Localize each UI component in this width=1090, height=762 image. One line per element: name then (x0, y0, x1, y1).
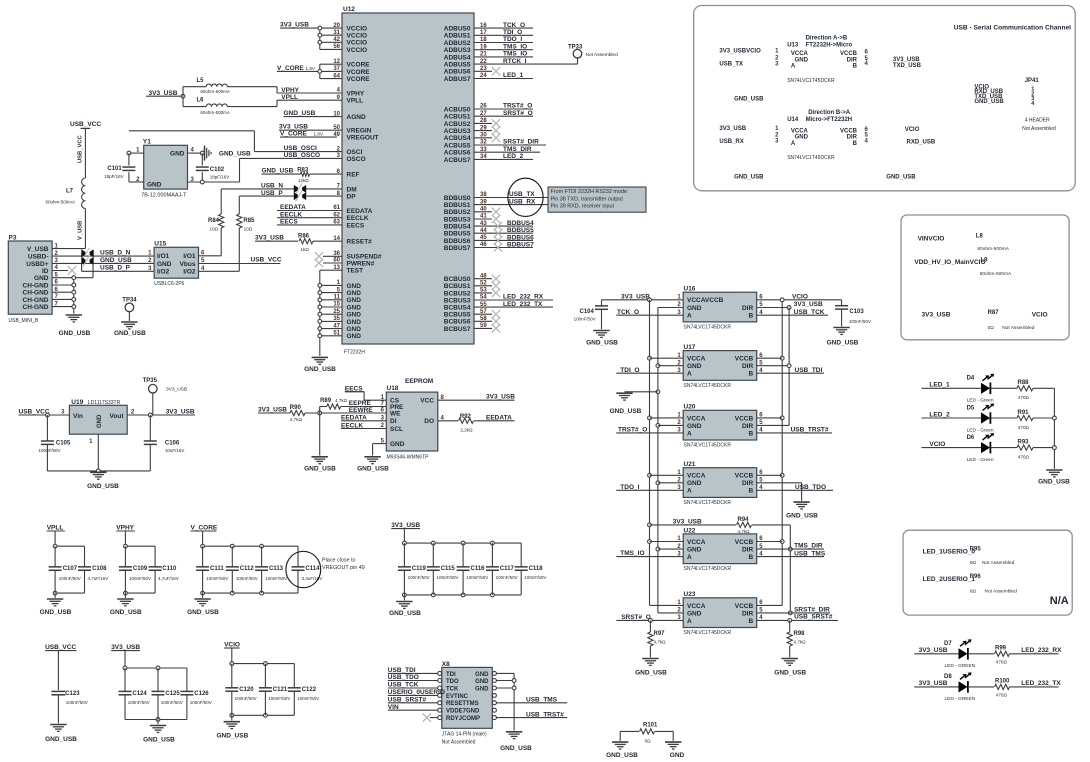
resistor R99 470R (995, 646, 1063, 665)
svg-text:VCIO: VCIO (1032, 311, 1048, 318)
svg-text:GND: GND (670, 752, 685, 759)
svg-text:R84: R84 (208, 218, 220, 224)
svg-text:C107: C107 (63, 566, 78, 572)
svg-text:VCCB: VCCB (735, 356, 754, 363)
svg-text:REF: REF (347, 172, 360, 179)
wire VPLL (277, 94, 342, 101)
svg-text:GND: GND (347, 290, 362, 297)
svg-text:GND: GND (795, 135, 809, 141)
svg-text:B: B (748, 488, 753, 495)
capacitor C112 (226, 546, 258, 593)
svg-text:1kΩ: 1kΩ (301, 247, 310, 252)
svg-text:U15: U15 (154, 241, 166, 248)
svg-text:GND: GND (475, 686, 489, 692)
svg-text:GND: GND (687, 423, 702, 430)
svg-text:100nF/50V: 100nF/50V (66, 700, 88, 705)
svg-text:DIR: DIR (742, 480, 754, 487)
svg-text:100nF/50V: 100nF/50V (206, 576, 228, 581)
svg-text:VCIO: VCIO (929, 441, 945, 448)
svg-text:V_CORE: V_CORE (191, 524, 218, 531)
svg-text:60ohm-500mA: 60ohm-500mA (977, 246, 1009, 252)
box LED USERIO not assembled (903, 530, 1072, 615)
LED D4 green (922, 374, 1018, 404)
svg-text:A: A (791, 64, 796, 70)
net USB_TCK from U16 B (757, 309, 828, 316)
svg-text:ACBUS6: ACBUS6 (444, 150, 471, 157)
U12 left pin names and numbers (333, 23, 382, 340)
svg-text:C105: C105 (56, 441, 71, 447)
svg-text:C122: C122 (302, 687, 317, 693)
svg-text:R100: R100 (995, 679, 1010, 685)
svg-text:LED_1: LED_1 (929, 382, 950, 389)
net EECS stub (277, 219, 342, 226)
svg-text:VCCB: VCCB (840, 51, 858, 57)
svg-text:GND_USB: GND_USB (827, 339, 859, 346)
svg-text:100nF/50V: 100nF/50V (466, 575, 488, 580)
svg-text:C106: C106 (165, 441, 180, 447)
svg-text:C115: C115 (441, 566, 456, 572)
svg-text:USB_VCC: USB_VCC (78, 134, 84, 163)
test point TP35 (143, 378, 187, 415)
wire Y1 pin4 to ground flag (188, 151, 205, 155)
ground GND_USB under U12 (304, 357, 336, 373)
svg-text:I/O2: I/O2 (157, 269, 170, 276)
ground GND_USB under R98 (774, 659, 806, 677)
net TMS_DIR from ACBUS6 (474, 146, 540, 153)
svg-text:From FTDI 2232H RS232 mode:: From FTDI 2232H RS232 mode: (551, 189, 629, 195)
svg-text:GND: GND (157, 261, 172, 268)
svg-text:4 HEADER: 4 HEADER (1025, 117, 1050, 123)
svg-text:GND: GND (687, 363, 702, 370)
no-connect X RDYJCOMP (423, 713, 438, 721)
net EEWRE to WE (349, 407, 374, 414)
resistor R85 10R (199, 196, 256, 271)
svg-text:I/O1: I/O1 (157, 253, 170, 260)
svg-text:DIR: DIR (742, 363, 754, 370)
no-connect X BCBUS (474, 275, 500, 283)
svg-text:R88: R88 (1018, 380, 1030, 386)
net USB_TRST# from X8 (496, 711, 567, 718)
bus 3V3_USB left vertical (648, 300, 684, 606)
buffer U23 SN74LVC1T45DCKR (677, 591, 763, 636)
svg-text:VCCA: VCCA (687, 603, 706, 610)
svg-text:VREGOUT: VREGOUT (347, 135, 379, 142)
svg-text:L5: L5 (197, 78, 205, 84)
wire USB_D_N with bead (52, 248, 154, 259)
svg-text:GND: GND (347, 326, 362, 333)
svg-text:VCCB: VCCB (735, 415, 754, 422)
svg-text:GND: GND (347, 319, 362, 326)
svg-text:470Ω: 470Ω (1018, 395, 1030, 400)
net LED_232_TX from BCBUS4 (474, 301, 553, 308)
svg-text:CH-GND: CH-GND (23, 282, 49, 289)
svg-text:C114: C114 (305, 566, 320, 572)
svg-text:U13: U13 (787, 43, 799, 49)
svg-text:GND_USB: GND_USB (586, 339, 618, 346)
svg-text:VCCIO: VCCIO (347, 40, 368, 47)
svg-text:DIR: DIR (742, 610, 754, 617)
net USB_VCC cap C123 (45, 644, 76, 690)
svg-text:GND_USB: GND_USB (304, 466, 336, 473)
svg-text:ID: ID (42, 268, 49, 275)
no-connect X BDBUS (474, 215, 500, 223)
svg-text:3V3_USB: 3V3_USB (922, 311, 951, 318)
svg-text:C111: C111 (210, 566, 224, 572)
svg-text:GND_USB: GND_USB (635, 669, 667, 676)
svg-text:B: B (748, 618, 753, 625)
inductor L7 (46, 178, 86, 209)
svg-text:GND: GND (475, 679, 489, 685)
svg-text:60ohm-500mA: 60ohm-500mA (200, 89, 230, 94)
inductor L6 (183, 96, 277, 115)
capacitor C122 100nF (288, 664, 319, 716)
svg-text:VCCB: VCCB (735, 473, 754, 480)
wire GND_USB to U15 with bead (52, 255, 154, 277)
svg-text:BDBUS5: BDBUS5 (507, 227, 534, 234)
svg-text:60ohm-500mA: 60ohm-500mA (200, 110, 230, 115)
svg-text:R96: R96 (970, 574, 982, 580)
svg-text:GND: GND (347, 304, 362, 311)
resistor R98 4.7k (787, 620, 806, 657)
net USB_TX from BDBUS0 (474, 191, 548, 198)
svg-text:3V3_USB: 3V3_USB (255, 235, 284, 242)
svg-text:100nF/50V: 100nF/50V (235, 696, 257, 701)
wire Y1 pin3 to OSCO (188, 180, 240, 184)
svg-text:DP: DP (347, 194, 357, 201)
capacitor C105 100nF (39, 415, 71, 471)
svg-text:C118: C118 (529, 566, 544, 572)
svg-text:TEST: TEST (347, 268, 364, 275)
svg-text:EEDATA: EEDATA (486, 414, 512, 421)
net BDBUS5 stub (474, 227, 534, 237)
svg-text:L6: L6 (197, 98, 205, 104)
svg-text:GND_USB: GND_USB (100, 257, 132, 264)
net SRST#_DIR from U23 DIR (757, 607, 830, 614)
svg-text:TP35: TP35 (143, 378, 158, 384)
svg-text:3V3_USB: 3V3_USB (166, 387, 187, 393)
svg-text:Y1: Y1 (143, 139, 151, 146)
bus VCIO right vertical (757, 300, 784, 606)
svg-text:ADBUS3: ADBUS3 (444, 47, 471, 54)
no-connect X BCBUS (474, 317, 500, 325)
svg-text:C109: C109 (133, 566, 148, 572)
svg-text:ACBUS3: ACBUS3 (444, 128, 471, 135)
resistor R89 4.7k to PRE (320, 398, 387, 456)
no-connect X ACBUS (474, 134, 500, 142)
test point TP34 (122, 298, 137, 321)
svg-text:EECS: EECS (347, 222, 365, 229)
svg-text:D4: D4 (967, 376, 975, 382)
svg-text:VCCB: VCCB (735, 603, 754, 610)
svg-text:10uF/16V: 10uF/16V (165, 448, 185, 453)
svg-text:GND: GND (687, 610, 702, 617)
svg-text:C120: C120 (239, 687, 254, 693)
svg-text:DIR: DIR (742, 423, 754, 430)
svg-text:GND_USB: GND_USB (786, 513, 818, 520)
svg-text:GND_USB: GND_USB (110, 609, 142, 616)
svg-text:VCCA: VCCA (687, 415, 706, 422)
net USB_TDI from U17 B (757, 367, 824, 374)
capacitor C114 (292, 546, 323, 593)
net TMS_DIR from U22 DIR (757, 543, 824, 550)
ground GND_USB under U21 DIR (786, 502, 818, 519)
capacitor C101 18pF (104, 153, 144, 182)
svg-text:SN74LVC1T45DCKR: SN74LVC1T45DCKR (684, 630, 732, 636)
svg-text:18pF/16V: 18pF/16V (210, 174, 230, 179)
svg-text:B: B (853, 141, 858, 147)
svg-text:3V3_USB: 3V3_USB (919, 647, 948, 654)
resistor R95 ghost (923, 547, 1015, 566)
net USB_TCK to X8 (388, 682, 438, 689)
svg-text:EEPROM: EEPROM (405, 378, 433, 385)
svg-text:USB_VCC: USB_VCC (70, 121, 101, 128)
svg-text:7B-12.000MAAJ-T: 7B-12.000MAAJ-T (141, 193, 187, 199)
svg-text:PWREN#: PWREN# (347, 260, 375, 267)
svg-text:1.8V: 1.8V (306, 66, 316, 71)
svg-text:ADBUS6: ADBUS6 (444, 69, 471, 76)
wire VPHY (277, 87, 342, 94)
capacitor C106 10uF (144, 415, 185, 471)
svg-text:3V3_USB: 3V3_USB (486, 394, 515, 401)
svg-text:VPLL: VPLL (347, 98, 364, 105)
svg-text:FT2232H->Micro: FT2232H->Micro (806, 43, 853, 49)
wire USB_D_P jog (82, 263, 155, 271)
net RTCK_I to TP33 (474, 58, 578, 65)
ground flag GND_USB at Y1 (205, 146, 251, 161)
ground bus for U12 GND pins (318, 284, 342, 356)
svg-text:BCBUS0: BCBUS0 (444, 276, 471, 283)
svg-text:1.8V: 1.8V (314, 132, 324, 137)
U12 right pin names and numbers (444, 23, 488, 333)
svg-text:TDO: TDO (446, 679, 459, 685)
box VINVCIO filters (901, 215, 1069, 340)
svg-text:EEWRE: EEWRE (349, 407, 374, 414)
svg-text:LED - GREEN: LED - GREEN (945, 663, 976, 669)
svg-text:SN74LVC1T45DCKR: SN74LVC1T45DCKR (684, 383, 732, 389)
buffer U13 ghost FT2232H to Micro (719, 36, 921, 103)
svg-text:VDDE7GND: VDDE7GND (446, 709, 480, 715)
net V_CORE 1.8V to VCORE pins (277, 64, 342, 78)
net SRST#_O from ACBUS1 (474, 110, 533, 117)
svg-text:BDBUS1: BDBUS1 (444, 202, 471, 209)
wire X8 GND pins to ground (496, 673, 516, 730)
svg-text:GND_USB: GND_USB (357, 466, 389, 473)
regulator U19 LD1117S33TR (61, 399, 135, 445)
net SRST#_DIR from ACBUS5 (474, 139, 546, 146)
svg-text:100nF/50V: 100nF/50V (190, 700, 212, 705)
net 3V3_USB cap group rail (391, 522, 521, 600)
svg-text:C124: C124 (132, 691, 147, 697)
net USB_SRST# from U23 B (757, 613, 838, 622)
svg-text:C112: C112 (240, 566, 255, 572)
svg-text:BCBUS5: BCBUS5 (444, 312, 471, 319)
svg-text:BDBUS4: BDBUS4 (444, 224, 471, 231)
svg-text:100nF/50V: 100nF/50V (129, 576, 151, 581)
svg-text:3V3_USBVCIO: 3V3_USBVCIO (719, 49, 761, 55)
ground bus P3 shield pins (52, 276, 76, 314)
svg-text:P3: P3 (9, 234, 17, 241)
net USB_TDO from U21 B (757, 484, 833, 491)
capacitor C124 100nF (119, 668, 150, 720)
ground GND_USB under U18 (357, 457, 389, 473)
svg-text:GND_USB: GND_USB (45, 736, 77, 743)
svg-text:R93: R93 (1018, 439, 1030, 445)
LED D5 green (922, 404, 1018, 434)
svg-text:ACBUS5: ACBUS5 (444, 142, 471, 149)
svg-text:A: A (687, 371, 692, 378)
net USB_TRST# from U20 B (757, 427, 832, 434)
net VPLL cap group rail (47, 524, 85, 597)
svg-text:ADBUS0: ADBUS0 (444, 26, 471, 33)
svg-text:BCBUS4: BCBUS4 (444, 305, 471, 312)
ground GND_USB under C103 (827, 328, 859, 347)
ground GND_USB under R97 (635, 659, 667, 677)
svg-text:100nF/50V: 100nF/50V (39, 448, 61, 453)
svg-text:D6: D6 (967, 435, 975, 441)
svg-text:60ohm-500mA: 60ohm-500mA (46, 200, 76, 205)
svg-text:4,7kΩ: 4,7kΩ (794, 639, 807, 644)
net EECS to U18 CS (345, 385, 386, 400)
svg-text:ACBUS1: ACBUS1 (444, 114, 471, 121)
svg-text:C116: C116 (471, 566, 486, 572)
ground GND_USB under C123 (45, 725, 77, 744)
svg-text:CH-GND: CH-GND (23, 297, 49, 304)
svg-text:R89: R89 (320, 398, 332, 404)
net V_CORE cap group rail (191, 524, 299, 597)
svg-text:VCCIO: VCCIO (347, 26, 368, 33)
svg-text:GND_USB: GND_USB (114, 330, 146, 337)
svg-text:X8: X8 (442, 661, 450, 668)
svg-text:GND_USB: GND_USB (774, 669, 806, 676)
svg-text:U17: U17 (684, 344, 696, 351)
svg-text:GND: GND (97, 414, 103, 428)
capacitor C115 100nF (427, 543, 459, 595)
svg-text:TCK: TCK (446, 686, 459, 692)
svg-text:470Ω: 470Ω (996, 693, 1008, 698)
svg-text:C104: C104 (580, 309, 595, 315)
capacitor C123 100nF (51, 691, 87, 724)
ground GND_USB under LED rail (1038, 470, 1070, 486)
svg-text:L7: L7 (66, 188, 74, 194)
svg-text:GND: GND (347, 312, 362, 319)
svg-text:GND_USB: GND_USB (886, 175, 916, 181)
net USB_P to DP with bead (239, 190, 342, 202)
no-connect X BCBUS (474, 282, 500, 290)
svg-text:BCBUS1: BCBUS1 (444, 283, 471, 290)
svg-text:VCCA: VCCA (687, 539, 706, 546)
eeprom U18 M93S46 (381, 378, 445, 461)
svg-text:GND: GND (687, 305, 702, 312)
capacitor C125 100nF (152, 668, 183, 720)
net EEDATA stub (277, 204, 342, 211)
svg-text:4,7uF/16V: 4,7uF/16V (88, 576, 109, 581)
svg-text:LED - Green: LED - Green (967, 457, 994, 463)
bus GND left vertical (656, 308, 683, 613)
svg-text:ADBUS2: ADBUS2 (444, 40, 471, 47)
svg-text:USB_VCC: USB_VCC (251, 257, 282, 264)
resistor R93 470R (1017, 439, 1054, 459)
buffer U14 ghost Micro to FT2232H (719, 110, 935, 181)
svg-text:WE: WE (390, 410, 401, 417)
svg-text:CH-GND: CH-GND (23, 290, 49, 297)
svg-text:GND: GND (170, 151, 185, 158)
svg-text:R87: R87 (988, 310, 1000, 316)
svg-text:ADBUS7: ADBUS7 (444, 76, 471, 83)
svg-text:U16: U16 (684, 286, 696, 293)
capacitor C119 100nF (398, 543, 430, 595)
svg-text:GND_USB: GND_USB (262, 167, 294, 174)
svg-text:GND_USB: GND_USB (389, 610, 421, 617)
svg-text:12kΩ: 12kΩ (298, 178, 309, 183)
svg-text:SN74LVC1T45DCKR: SN74LVC1T45DCKR (787, 155, 835, 161)
svg-text:B: B (748, 554, 753, 561)
svg-text:4,7kΩ: 4,7kΩ (290, 417, 303, 422)
ground GND_USB under C119 (389, 602, 421, 617)
svg-text:USBLC6-2P6: USBLC6-2P6 (154, 281, 184, 287)
svg-text:U21: U21 (684, 461, 696, 468)
net 3V3_USB to VPHY VPLL filters (146, 90, 185, 98)
net USB_OSCO to OSCO (240, 152, 343, 182)
svg-text:GND_USB: GND_USB (187, 609, 219, 616)
svg-text:U14: U14 (787, 117, 799, 123)
svg-text:C102: C102 (210, 167, 225, 173)
net BDBUS6 stub (474, 234, 534, 244)
svg-text:SN74LVC1T45DCKR: SN74LVC1T45DCKR (684, 443, 732, 449)
svg-text:I/O2: I/O2 (183, 269, 196, 276)
ground GND_USB under X8 (500, 732, 532, 752)
svg-text:I/O1: I/O1 (183, 253, 196, 260)
svg-text:LED - GREEN: LED - GREEN (945, 696, 976, 702)
ground GND_USB under P3 (59, 315, 91, 337)
svg-text:GND_USB: GND_USB (59, 330, 91, 337)
no-connect X ACBUS (474, 126, 500, 134)
svg-text:BCBUS7: BCBUS7 (444, 326, 471, 333)
svg-text:ACBUS4: ACBUS4 (444, 135, 471, 142)
wire stubs pins1-2 buffers (650, 308, 684, 550)
svg-text:USB_VCC: USB_VCC (45, 644, 76, 651)
svg-text:A: A (687, 554, 692, 561)
wire P3 pin1 V_USB (52, 248, 85, 250)
capacitor C116 100nF (457, 543, 489, 595)
wire Y1 pin1 (127, 151, 144, 155)
svg-text:ACBUS0: ACBUS0 (444, 106, 471, 113)
resistor R100 470R (995, 679, 1062, 698)
buffer U17 SN74LVC1T45DCKR (677, 344, 763, 389)
bus 3V3_USB right DIR rail (757, 301, 823, 425)
svg-text:3V3_USB: 3V3_USB (111, 644, 140, 651)
box USB-Serial Communication Channel (694, 6, 1075, 191)
svg-text:100nF/50V: 100nF/50V (408, 575, 430, 580)
svg-text:ACBUS7: ACBUS7 (444, 157, 471, 164)
net 3V3_USB to VCCIO pins (280, 22, 342, 50)
svg-text:0Ω: 0Ω (988, 325, 995, 331)
net TRST#_O from ACBUS0 (474, 103, 533, 110)
svg-text:100nF/50V: 100nF/50V (128, 700, 150, 705)
buffer U20 SN74LVC1T45DCKR (677, 404, 763, 449)
svg-text:C123: C123 (65, 691, 80, 697)
net LED_1 from ADBUS7 (474, 72, 533, 79)
svg-text:AGND: AGND (347, 114, 366, 121)
svg-text:GND: GND (347, 297, 362, 304)
capacitor C120 100nF (225, 664, 256, 716)
svg-text:VPHY: VPHY (347, 90, 365, 97)
net EECLK stub (277, 211, 342, 218)
annotation text place close to VREGOUT (322, 558, 365, 572)
svg-text:C113: C113 (269, 566, 284, 572)
svg-text:U18: U18 (387, 385, 399, 392)
svg-text:Pin 38 TXD, transmitter output: Pin 38 TXD, transmitter output (551, 196, 624, 202)
svg-text:100nF/50V: 100nF/50V (574, 317, 596, 322)
